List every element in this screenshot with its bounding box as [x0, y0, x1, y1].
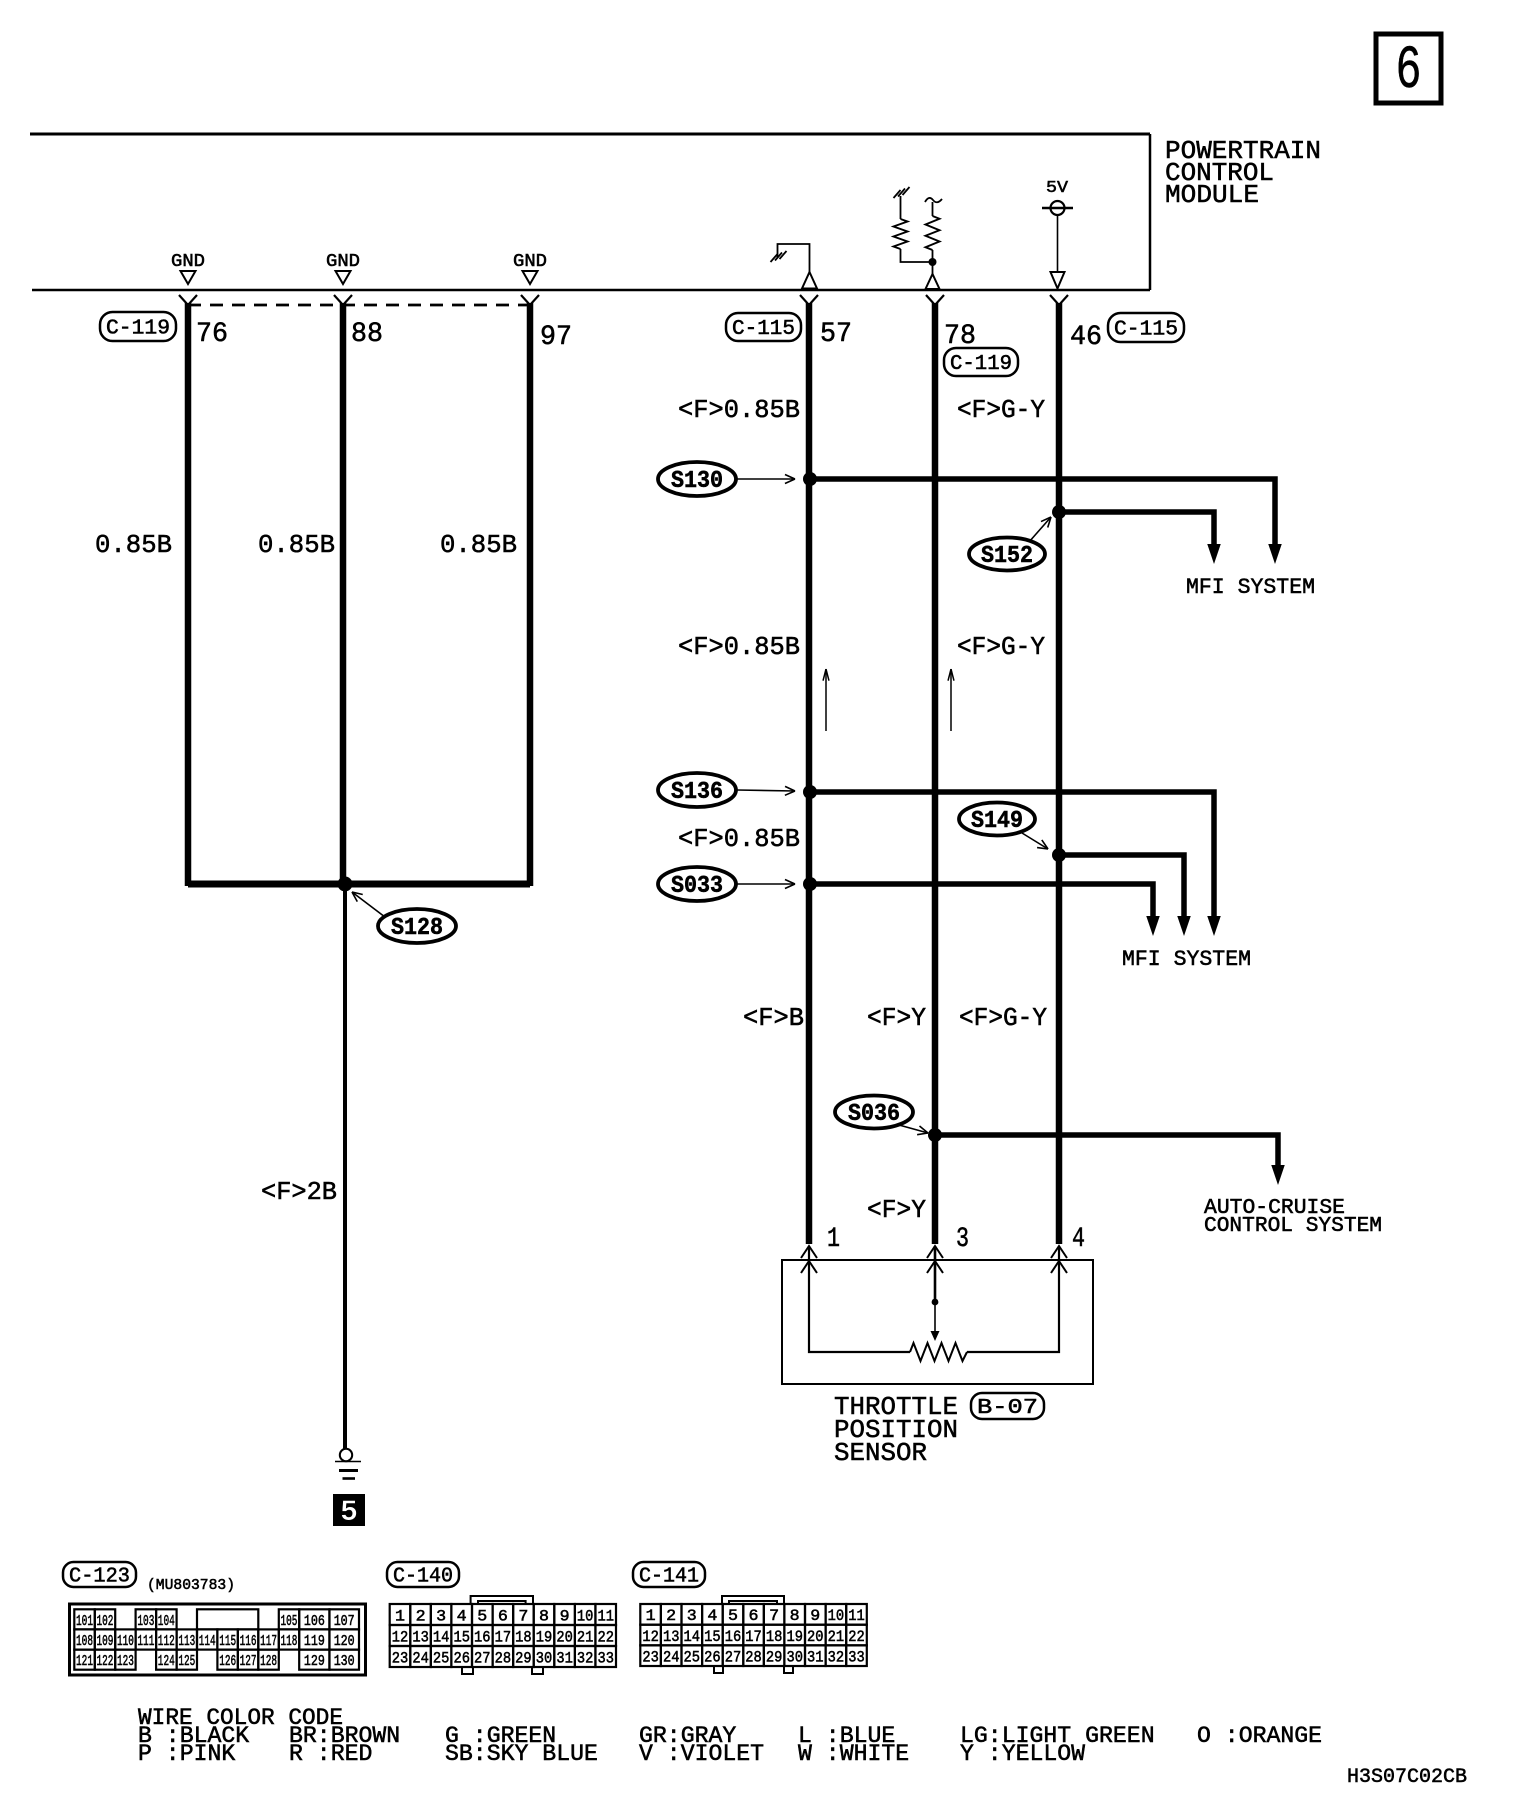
- svg-text:MODULE: MODULE: [1165, 180, 1259, 210]
- connector pinout table C-123: [70, 1604, 366, 1675]
- pointer arrow S130: [737, 478, 795, 480]
- svg-text:8: 8: [790, 1607, 800, 1625]
- connector label C-115 (pin 46): [1108, 313, 1184, 342]
- svg-text:33: 33: [597, 1649, 614, 1667]
- connector label C-115 (pin 57): [726, 313, 801, 341]
- TPS inner lead pin 4: [967, 1246, 1059, 1352]
- svg-text:106: 106: [304, 1613, 325, 1630]
- connector pinout table C-141: [640, 1596, 867, 1673]
- svg-text:119: 119: [304, 1633, 325, 1650]
- svg-text:120: 120: [334, 1633, 355, 1650]
- svg-text:23: 23: [392, 1649, 409, 1667]
- svg-text:114: 114: [199, 1633, 216, 1650]
- svg-text:C-115: C-115: [732, 318, 795, 341]
- svg-text:<F>B: <F>B: [743, 1003, 804, 1033]
- svg-text:GND: GND: [326, 252, 360, 272]
- junction node S136 dot: [803, 785, 817, 799]
- svg-text:5: 5: [728, 1607, 738, 1625]
- svg-text:C-119: C-119: [106, 317, 170, 340]
- junction dot (resistor pair to pin 78): [929, 258, 937, 266]
- connector label C-141: [633, 1562, 705, 1587]
- svg-text:1: 1: [827, 1224, 840, 1255]
- junction node S130 dot: [803, 472, 817, 486]
- svg-text:O :ORANGE: O :ORANGE: [1197, 1723, 1322, 1749]
- junction node S149 dot: [1052, 848, 1066, 862]
- svg-text:9: 9: [560, 1607, 570, 1625]
- svg-text:123: 123: [117, 1653, 134, 1670]
- svg-text:<F>G-Y: <F>G-Y: [957, 395, 1045, 425]
- svg-text:130: 130: [334, 1653, 355, 1670]
- svg-text:25: 25: [684, 1649, 701, 1667]
- svg-text:104: 104: [158, 1613, 175, 1630]
- svg-text:22: 22: [848, 1628, 865, 1646]
- svg-text:<F>Y: <F>Y: [867, 1003, 926, 1033]
- svg-text:26: 26: [453, 1649, 470, 1667]
- svg-text:32: 32: [577, 1649, 594, 1667]
- svg-text:<F>Y: <F>Y: [867, 1195, 926, 1225]
- wire pin 88 vertical 0.85B: [340, 303, 347, 886]
- wire color code legend: [138, 1705, 1322, 1767]
- svg-text:5: 5: [340, 1496, 358, 1530]
- page reference box 5: [333, 1494, 365, 1530]
- svg-text:W :WHITE: W :WHITE: [798, 1741, 909, 1767]
- svg-text:5V: 5V: [1046, 179, 1069, 198]
- internal 5V supply (pin 46): [1042, 179, 1073, 289]
- pointer arrow S149: [1022, 833, 1048, 849]
- svg-text:16: 16: [474, 1628, 491, 1646]
- svg-text:0.85B: 0.85B: [440, 530, 517, 560]
- svg-text:18: 18: [766, 1628, 783, 1646]
- svg-text:33: 33: [848, 1649, 865, 1667]
- svg-text:12: 12: [392, 1628, 409, 1646]
- svg-text:23: 23: [642, 1649, 659, 1667]
- svg-text:S149: S149: [971, 808, 1023, 835]
- svg-text:S136: S136: [671, 779, 723, 806]
- connector chevron at pin wire x=935: [926, 295, 944, 305]
- svg-text:127: 127: [240, 1653, 257, 1670]
- svg-text:25: 25: [433, 1649, 450, 1667]
- svg-text:CONTROL SYSTEM: CONTROL SYSTEM: [1204, 1215, 1382, 1238]
- TPS inner lead pin 1: [809, 1246, 910, 1352]
- branch wire S130 to MFI system: [810, 479, 1282, 564]
- TPS terminal double chevron x=1059: [1051, 1246, 1067, 1273]
- pointer arrow S036: [899, 1125, 928, 1133]
- splice label S128: [378, 909, 456, 943]
- svg-text:1: 1: [646, 1607, 656, 1625]
- splice label S149: [959, 803, 1035, 836]
- svg-text:5: 5: [477, 1607, 487, 1625]
- direction arrow on wire 78: [950, 669, 952, 731]
- splice label S136: [658, 773, 736, 807]
- svg-text:3: 3: [436, 1607, 446, 1625]
- svg-text:107: 107: [334, 1613, 355, 1630]
- TPS terminal double chevron x=809: [801, 1246, 817, 1273]
- svg-text:122: 122: [97, 1653, 114, 1670]
- svg-text:R :RED: R :RED: [289, 1741, 372, 1767]
- wire pin 57 vertical: [806, 303, 813, 1244]
- svg-text:10: 10: [577, 1607, 594, 1625]
- TPS resistor element: [910, 1343, 967, 1361]
- connector label C-123: [63, 1562, 136, 1587]
- splice label S152: [969, 538, 1045, 571]
- svg-text:21: 21: [828, 1628, 845, 1646]
- svg-text:7: 7: [518, 1607, 528, 1625]
- svg-text:125: 125: [178, 1653, 195, 1670]
- svg-text:SB:SKY BLUE: SB:SKY BLUE: [445, 1741, 598, 1767]
- internal resistor (left of pair, pin 78): [894, 187, 930, 262]
- svg-text:124: 124: [158, 1653, 175, 1670]
- svg-text:13: 13: [663, 1628, 680, 1646]
- svg-text:V :VIOLET: V :VIOLET: [639, 1741, 764, 1767]
- ground pin GND above pin at x=530: [513, 252, 547, 284]
- svg-text:30: 30: [786, 1649, 803, 1667]
- svg-text:118: 118: [281, 1633, 298, 1650]
- svg-text:117: 117: [260, 1633, 277, 1650]
- svg-text:29: 29: [515, 1649, 532, 1667]
- svg-text:S152: S152: [981, 543, 1033, 570]
- TPS terminal double chevron x=935: [927, 1246, 943, 1273]
- svg-text:128: 128: [260, 1653, 277, 1670]
- svg-text:18: 18: [515, 1628, 532, 1646]
- svg-text:110: 110: [117, 1633, 134, 1650]
- svg-text:97: 97: [540, 322, 572, 353]
- svg-text:24: 24: [663, 1649, 680, 1667]
- svg-text:29: 29: [766, 1649, 783, 1667]
- svg-text:2: 2: [416, 1607, 426, 1625]
- svg-text:12: 12: [642, 1628, 659, 1646]
- svg-text:Y :YELLOW: Y :YELLOW: [960, 1741, 1085, 1767]
- pointer arrow S136: [737, 790, 795, 791]
- svg-text:0.85B: 0.85B: [258, 530, 335, 560]
- svg-text:109: 109: [97, 1633, 114, 1650]
- svg-text:<F>0.85B: <F>0.85B: [678, 824, 800, 854]
- connector pinout table C-140: [390, 1596, 616, 1674]
- svg-text:115: 115: [219, 1633, 236, 1650]
- branch wire S152 to MFI system: [1059, 512, 1221, 564]
- svg-text:24: 24: [412, 1649, 429, 1667]
- label POWERTRAIN CONTROL MODULE: [1165, 136, 1321, 210]
- page reference box 6: [1376, 34, 1441, 106]
- pointer arrow S128: [352, 892, 385, 917]
- junction node S033 dot: [803, 877, 817, 891]
- svg-text:14: 14: [433, 1628, 450, 1646]
- svg-text:21: 21: [577, 1628, 594, 1646]
- svg-text:28: 28: [495, 1649, 512, 1667]
- svg-text:GND: GND: [171, 252, 205, 272]
- connector label B-07: [971, 1393, 1044, 1419]
- svg-text:13: 13: [412, 1628, 429, 1646]
- svg-text:14: 14: [684, 1628, 701, 1646]
- pin 97 connector chevron: [521, 295, 539, 305]
- wire pin 78 vertical: [932, 303, 939, 1244]
- svg-text:MFI SYSTEM: MFI SYSTEM: [1186, 575, 1315, 600]
- branch wire S149 to MFI system: [1059, 855, 1191, 936]
- wire pin 46 vertical: [1056, 303, 1063, 1244]
- TPS inner lead pin 3 (wiper): [931, 1246, 940, 1341]
- svg-text:26: 26: [704, 1649, 721, 1667]
- junction node S128 dot: [338, 877, 353, 892]
- svg-text:105: 105: [281, 1613, 298, 1630]
- pin 78 internal terminal triangle: [926, 274, 940, 289]
- svg-text:4: 4: [457, 1607, 467, 1625]
- svg-text:30: 30: [536, 1649, 553, 1667]
- svg-text:7: 7: [769, 1607, 779, 1625]
- svg-text:9: 9: [810, 1607, 820, 1625]
- svg-text:112: 112: [158, 1633, 175, 1650]
- pin 88 connector chevron: [334, 295, 352, 305]
- svg-text:108: 108: [76, 1633, 93, 1650]
- svg-text:4: 4: [707, 1607, 717, 1625]
- connector label C-119 (pin 78): [944, 348, 1018, 376]
- svg-text:P :PINK: P :PINK: [138, 1741, 235, 1767]
- svg-text:6: 6: [749, 1607, 759, 1625]
- svg-text:B-07: B-07: [977, 1397, 1038, 1420]
- pointer arrow S152: [1029, 517, 1051, 542]
- svg-text:102: 102: [97, 1613, 114, 1630]
- svg-text:3: 3: [956, 1224, 969, 1255]
- wire (F)2B to ground: [343, 884, 347, 1449]
- svg-text:116: 116: [240, 1633, 257, 1650]
- svg-text:20: 20: [556, 1628, 573, 1646]
- svg-text:C-141: C-141: [639, 1565, 699, 1588]
- svg-text:76: 76: [196, 319, 228, 350]
- splice label S036: [835, 1096, 913, 1129]
- pin 76 connector chevron: [179, 295, 197, 305]
- svg-text:C-140: C-140: [393, 1565, 453, 1588]
- svg-text:C-115: C-115: [1114, 318, 1178, 341]
- branch wire S036 to auto-cruise control system: [935, 1135, 1285, 1185]
- connector chevron at pin wire x=1059: [1050, 295, 1068, 305]
- direction arrow on wire 57: [825, 669, 827, 731]
- internal resistor (right of pair, pin 78): [925, 198, 942, 274]
- svg-text:<F>0.85B: <F>0.85B: [678, 632, 800, 662]
- pointer arrow S033: [737, 883, 795, 885]
- internal chassis ground (pin 57): [771, 244, 818, 289]
- junction node S152 dot: [1052, 505, 1066, 519]
- svg-text:27: 27: [474, 1649, 491, 1667]
- connector label C-140: [387, 1562, 459, 1587]
- svg-text:2: 2: [666, 1607, 676, 1625]
- svg-text:19: 19: [786, 1628, 803, 1646]
- svg-text:17: 17: [495, 1628, 512, 1646]
- ground bus bar joining pins 76-88-97: [188, 881, 530, 888]
- splice label S130: [658, 462, 736, 496]
- svg-text:10: 10: [828, 1607, 845, 1625]
- svg-text:103: 103: [137, 1613, 154, 1630]
- svg-text:31: 31: [807, 1649, 824, 1667]
- svg-text:S033: S033: [671, 873, 723, 900]
- svg-text:28: 28: [745, 1649, 762, 1667]
- ground pin GND above pin at x=188: [171, 252, 205, 284]
- svg-text:MFI SYSTEM: MFI SYSTEM: [1122, 947, 1251, 972]
- svg-text:20: 20: [807, 1628, 824, 1646]
- svg-text:126: 126: [219, 1653, 236, 1670]
- svg-text:15: 15: [704, 1628, 721, 1646]
- svg-text:0.85B: 0.85B: [95, 530, 172, 560]
- svg-text:121: 121: [76, 1653, 93, 1670]
- ground pin GND above pin at x=343: [326, 252, 360, 284]
- svg-text:1: 1: [395, 1607, 405, 1625]
- svg-text:<F>G-Y: <F>G-Y: [957, 632, 1045, 662]
- powertrain control module box: [30, 134, 1150, 290]
- svg-text:GND: GND: [513, 252, 547, 272]
- dashed link between ground pins 76-88-97: [188, 304, 530, 307]
- svg-text:8: 8: [539, 1607, 549, 1625]
- svg-text:S130: S130: [671, 468, 723, 495]
- svg-text:113: 113: [178, 1633, 195, 1650]
- svg-text:57: 57: [820, 319, 852, 350]
- svg-text:H3S07C02CB: H3S07C02CB: [1347, 1766, 1467, 1789]
- branch wire S136 to MFI system: [810, 792, 1221, 936]
- wire pin 97 vertical 0.85B: [527, 303, 534, 886]
- connector label C-119 (left): [100, 312, 176, 341]
- svg-text:6: 6: [498, 1607, 508, 1625]
- svg-text:111: 111: [137, 1633, 154, 1650]
- svg-text:129: 129: [304, 1653, 325, 1670]
- svg-text:C-123: C-123: [69, 1565, 130, 1588]
- svg-text:31: 31: [556, 1649, 573, 1667]
- wire pin 76 vertical 0.85B: [185, 303, 192, 886]
- svg-text:C-119: C-119: [950, 353, 1012, 376]
- svg-text:<F>2B: <F>2B: [261, 1177, 337, 1207]
- throttle position sensor box: [782, 1260, 1093, 1384]
- svg-text:SENSOR: SENSOR: [834, 1438, 927, 1468]
- svg-text:4: 4: [1072, 1224, 1085, 1255]
- junction node S036 dot: [928, 1128, 942, 1142]
- svg-text:32: 32: [828, 1649, 845, 1667]
- connector chevron at pin wire x=809: [800, 295, 818, 305]
- svg-text:<F>G-Y: <F>G-Y: [959, 1003, 1047, 1033]
- svg-text:88: 88: [351, 319, 383, 350]
- svg-text:11: 11: [848, 1607, 865, 1625]
- svg-text:101: 101: [76, 1613, 93, 1630]
- svg-text:6: 6: [1396, 37, 1422, 106]
- svg-text:16: 16: [725, 1628, 742, 1646]
- svg-text:S128: S128: [391, 915, 443, 942]
- splice label S033: [658, 867, 736, 901]
- svg-text:17: 17: [745, 1628, 762, 1646]
- label AUTO-CRUISE CONTROL SYSTEM: [1204, 1197, 1382, 1238]
- svg-text:22: 22: [597, 1628, 614, 1646]
- label THROTTLE POSITION SENSOR: [834, 1392, 958, 1468]
- svg-text:3: 3: [687, 1607, 697, 1625]
- svg-text:27: 27: [725, 1649, 742, 1667]
- svg-text:S036: S036: [848, 1101, 900, 1128]
- svg-text:11: 11: [597, 1607, 614, 1625]
- branch wire S033 to MFI system: [810, 884, 1160, 936]
- svg-text:(MU803783): (MU803783): [147, 1577, 235, 1594]
- svg-text:19: 19: [536, 1628, 553, 1646]
- svg-text:<F>0.85B: <F>0.85B: [678, 395, 800, 425]
- svg-text:46: 46: [1070, 322, 1102, 353]
- svg-text:15: 15: [453, 1628, 470, 1646]
- ground symbol (earth): [335, 1449, 361, 1479]
